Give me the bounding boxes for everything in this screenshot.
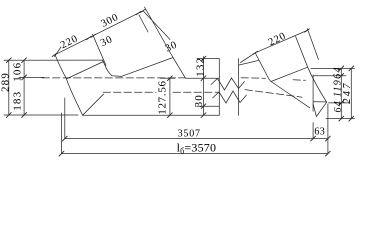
top extension line (also band top edge) <box>4 59 103 61</box>
dashed fold line left section <box>42 77 185 79</box>
extension stroke above V at chain start <box>55 47 62 57</box>
inclined chain tick marks <box>52 9 145 56</box>
upslope to peak <box>122 58 174 77</box>
tip V notch <box>313 102 327 116</box>
right tip big diagonal from P <box>308 67 327 102</box>
profile left curved edge from V down to bottom vertex <box>55 56 82 116</box>
upslope to right peak P <box>271 67 308 81</box>
svg-text:3507: 3507 <box>178 128 201 139</box>
extension line from t4 down to zigzag peak <box>145 7 174 58</box>
inclined dimension chain line 220/30/300/30 <box>55 11 144 55</box>
right tip vertical extension to dimension <box>312 123 314 139</box>
right 220 dimension line <box>255 31 307 53</box>
leader line from t4 for second 30 <box>143 11 170 40</box>
fold diagonal left <box>67 62 104 79</box>
svg-text:64: 64 <box>333 66 344 78</box>
middle tick extension at 77.4 <box>19 76 44 78</box>
left section bottom edge <box>83 114 220 116</box>
svg-text:220: 220 <box>267 31 288 49</box>
right section top edge <box>239 60 259 65</box>
bottom-left diagonal from vertex <box>83 94 104 115</box>
svg-text:lб=3570: lб=3570 <box>177 141 217 156</box>
riser from peak down <box>173 58 186 79</box>
132/30 dimension vertical <box>203 57 205 116</box>
svg-text:106: 106 <box>12 62 24 82</box>
right 220 right extension <box>307 29 318 60</box>
extension line from dim down to P <box>296 37 308 68</box>
svg-text:220: 220 <box>59 33 80 51</box>
dashed line lower left section <box>103 91 156 93</box>
bottom extension verticals left <box>61 113 63 154</box>
tread line to break <box>186 77 220 79</box>
break zigzag lower <box>213 91 247 103</box>
svg-text:30: 30 <box>99 34 115 49</box>
left chain vertical dimension line 289 <box>8 60 10 115</box>
bottom extension line left <box>4 114 78 116</box>
svg-text:63: 63 <box>314 127 325 138</box>
svg-text:30: 30 <box>164 39 180 54</box>
dashed line lower right section <box>245 90 302 98</box>
svg-text:183: 183 <box>12 91 24 111</box>
127.56 dimension vertical <box>169 78 171 115</box>
bottom diagonal from vertex to tip <box>271 82 310 108</box>
svg-text:132: 132 <box>194 57 206 77</box>
bottom extension vertical right at 328 <box>327 104 329 154</box>
right inner chain vertical 64/119/64 <box>340 68 342 118</box>
right chain extension ticks <box>311 67 355 69</box>
svg-text:30: 30 <box>193 94 205 107</box>
127.56 top tick <box>160 77 175 79</box>
break line v2 <box>218 59 220 116</box>
extension line short at t3 <box>139 15 148 32</box>
right tip vertical edge <box>312 75 314 111</box>
dashed fold line right section <box>241 77 266 80</box>
extension tick lower level <box>197 105 219 107</box>
break line v3 <box>238 59 240 116</box>
bottom dimension line lb=3570 <box>62 153 329 155</box>
extension tick top edge level <box>197 58 219 60</box>
svg-text:127.56: 127.56 <box>157 80 169 114</box>
tick marks left chain <box>6 58 26 118</box>
break zigzag upper <box>211 78 245 90</box>
right piece steep left edge down to vertex <box>255 53 271 82</box>
notch descent and bottom <box>102 60 121 76</box>
left chain vertical dimension line 106/183 <box>23 60 25 115</box>
bottom dimension line 3507 with 63 segment <box>65 138 328 140</box>
svg-text:247: 247 <box>342 81 353 103</box>
extension line from t2 down to notch corner <box>93 34 107 65</box>
right tip horizontal <box>313 101 327 103</box>
svg-text:289: 289 <box>0 72 11 92</box>
right outer chain vertical 247 <box>350 68 352 118</box>
right 220 left leader extension <box>241 53 256 63</box>
